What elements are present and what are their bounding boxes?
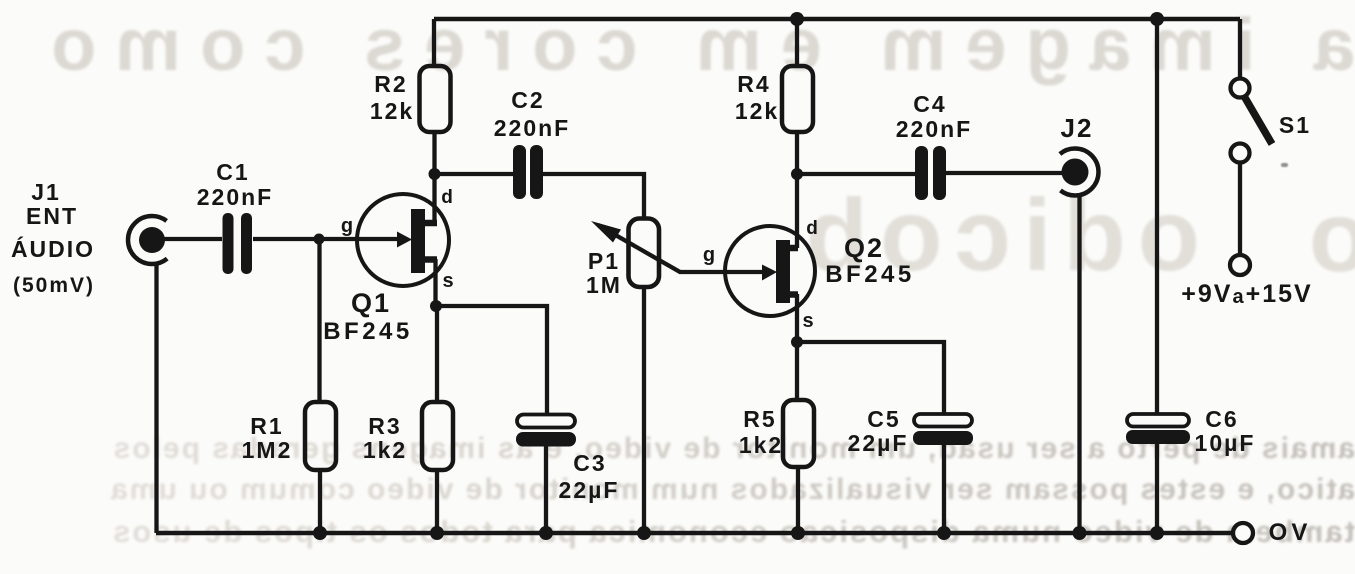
wire: C3 bottom lead bbox=[544, 446, 548, 533]
label R1 1M2 bbox=[242, 413, 293, 463]
wire: source junction to R3 bbox=[435, 306, 439, 402]
svg-text:1k2: 1k2 bbox=[363, 437, 407, 463]
node: Q2 drain / C4 junction bbox=[791, 168, 803, 180]
label J1 ENT AUDIO (50mV) bbox=[11, 179, 95, 297]
terminal 0V bbox=[1233, 523, 1253, 543]
svg-text:g: g bbox=[341, 215, 355, 237]
svg-text:BF245: BF245 bbox=[825, 261, 915, 288]
svg-text:ENT: ENT bbox=[26, 203, 78, 229]
wire: Q1 drain to C2 bbox=[435, 172, 514, 176]
svg-text:Q2: Q2 bbox=[844, 233, 884, 263]
transistor Q2 bbox=[725, 226, 815, 316]
svg-text:22µF: 22µF bbox=[559, 477, 620, 503]
label R2 12k bbox=[370, 71, 414, 124]
bleed-through headline line 1 (mirrored) bbox=[65, 2, 1355, 87]
label R4 12k bbox=[735, 71, 779, 124]
wire: C4 to J2 bbox=[946, 171, 1063, 175]
label P1 1M bbox=[586, 248, 622, 298]
wire: R3 bottom lead bbox=[435, 470, 439, 533]
node: rail junction R1 bbox=[313, 526, 327, 540]
svg-text:g: g bbox=[703, 244, 717, 266]
capacitor C6 (electrolytic) bbox=[1126, 414, 1190, 444]
bleed-through paragraph line 1 (mirrored) bbox=[70, 432, 1355, 466]
wire: J1 to C1 bbox=[163, 237, 222, 241]
svg-text:J2: J2 bbox=[1061, 113, 1094, 143]
resistor R1 bbox=[305, 402, 336, 470]
svg-text:22µF: 22µF bbox=[848, 430, 909, 456]
wire: Q2 source lead down bbox=[795, 294, 799, 342]
wire: R2 top lead bbox=[432, 19, 436, 66]
svg-text:C1: C1 bbox=[216, 159, 249, 185]
connector J2 bbox=[1052, 149, 1099, 196]
bleed-through paragraph line 3 (mirrored) bbox=[70, 514, 1355, 550]
scan speck bbox=[1281, 163, 1288, 167]
svg-text:d: d bbox=[441, 187, 455, 208]
svg-text:OV: OV bbox=[1269, 519, 1312, 546]
label C6 10uF bbox=[1195, 406, 1256, 456]
svg-text:C4: C4 bbox=[913, 91, 946, 117]
label Q2 BF245 bbox=[825, 233, 915, 288]
wire: C1 to Q1 gate bbox=[253, 237, 397, 241]
wire: C5 bottom lead bbox=[942, 445, 946, 533]
label R3 1k2 bbox=[363, 413, 407, 463]
capacitor C5 (electrolytic) bbox=[913, 414, 973, 445]
wire: top rail down to C6 bbox=[1155, 19, 1159, 414]
capacitor C4 bbox=[915, 146, 946, 200]
node: top rail junction above R4 bbox=[790, 12, 804, 26]
node: top rail junction above C6 bbox=[1150, 12, 1164, 26]
svg-text:220nF: 220nF bbox=[197, 184, 273, 210]
label C3 22uF bbox=[559, 450, 620, 503]
wire: J1 down lead bbox=[154, 264, 158, 533]
transistor Q1 bbox=[357, 194, 449, 286]
svg-text:R5: R5 bbox=[743, 406, 776, 432]
resistor R3 bbox=[422, 402, 453, 470]
node: rail junction C3 bbox=[539, 526, 553, 540]
label C1 220nF bbox=[197, 159, 273, 210]
wire: bottom ground rail bbox=[156, 531, 1233, 536]
bleed-through paragraph line 2 (mirrored) bbox=[70, 473, 1355, 507]
wire: Q2 drain to C4 bbox=[797, 172, 915, 176]
bleed-through headline line 2 (mirrored) bbox=[840, 177, 1200, 294]
node: rail junction C5 bbox=[937, 526, 951, 540]
node: rail junction P1 bbox=[637, 526, 651, 540]
svg-text:R3: R3 bbox=[368, 413, 401, 439]
wire: J2 down lead bbox=[1077, 193, 1081, 533]
svg-text:s: s bbox=[802, 310, 815, 332]
svg-text:ÁUDIO: ÁUDIO bbox=[11, 235, 95, 262]
svg-text:C2: C2 bbox=[511, 87, 544, 113]
wire: source junction to C5 bbox=[797, 342, 944, 413]
label R5 1k2 bbox=[739, 406, 783, 458]
resistor R5 bbox=[783, 400, 814, 467]
wire: R4 top lead bbox=[795, 19, 799, 66]
wire: top supply rail bbox=[434, 17, 1240, 22]
svg-text:1M: 1M bbox=[586, 272, 622, 298]
potentiometer P1 bbox=[591, 219, 680, 288]
label C4 220nF bbox=[896, 91, 972, 142]
node: gate/R1 junction bbox=[314, 234, 325, 245]
svg-text:12k: 12k bbox=[370, 98, 414, 124]
node: rail junction R5 bbox=[791, 526, 805, 540]
svg-text:10µF: 10µF bbox=[1195, 430, 1256, 456]
svg-text:C5: C5 bbox=[867, 406, 900, 432]
wire: C6 bottom lead bbox=[1155, 444, 1159, 533]
wire: R5 bottom lead bbox=[796, 467, 800, 533]
svg-text:BF245: BF245 bbox=[323, 318, 413, 345]
svg-text:J1: J1 bbox=[31, 179, 61, 205]
svg-text:C3: C3 bbox=[573, 450, 606, 476]
svg-text:220nF: 220nF bbox=[896, 116, 972, 142]
wire: junction down to R1 bbox=[317, 239, 321, 402]
node: rail junction R3 bbox=[430, 526, 444, 540]
svg-text:12k: 12k bbox=[735, 98, 779, 124]
bleed-through headline fragment right edge (mirrored) bbox=[1310, 180, 1355, 295]
svg-text:C6: C6 bbox=[1205, 406, 1238, 432]
svg-text:R4: R4 bbox=[737, 71, 770, 97]
node: rail junction C6 bbox=[1150, 526, 1164, 540]
node: rail junction J2 bbox=[1073, 526, 1087, 540]
wire: P1 wiper to Q2 gate bbox=[679, 270, 762, 274]
svg-text:R2: R2 bbox=[374, 71, 407, 97]
svg-text:(50mV): (50mV) bbox=[13, 274, 95, 297]
resistor R2 bbox=[420, 66, 451, 132]
resistor R4 bbox=[782, 66, 813, 132]
svg-text:1M2: 1M2 bbox=[242, 437, 293, 463]
label C2 220nF bbox=[494, 87, 570, 141]
capacitor C2 bbox=[513, 145, 543, 199]
capacitor C1 bbox=[223, 213, 253, 274]
label C5 22uF bbox=[848, 406, 909, 456]
svg-text:s: s bbox=[442, 270, 455, 292]
svg-text:220nF: 220nF bbox=[494, 115, 570, 141]
svg-text:S1: S1 bbox=[1279, 112, 1311, 138]
node: Q1 drain / C2 junction bbox=[429, 168, 441, 180]
svg-text:Q1: Q1 bbox=[351, 288, 391, 318]
wire: Q1 source lead down bbox=[433, 259, 437, 306]
wire: C2 to P1 bbox=[543, 174, 644, 218]
label Q1 BF245 bbox=[323, 288, 413, 345]
wire: source junction to R5 bbox=[795, 342, 799, 400]
node: Q1 source junction bbox=[430, 300, 442, 312]
svg-text:d: d bbox=[806, 218, 820, 239]
wire: source junction to C3 bbox=[436, 306, 547, 414]
wire: R2 bottom to Q1 drain bbox=[432, 132, 436, 223]
svg-text:P1: P1 bbox=[588, 248, 620, 274]
wire: R4 bottom to Q2 drain bbox=[795, 132, 799, 248]
connector J1 bbox=[128, 216, 176, 264]
node: Q2 source junction bbox=[791, 336, 803, 348]
switch S1 bbox=[1230, 19, 1272, 275]
wire: P1 bottom lead bbox=[642, 287, 646, 533]
svg-text:+9Va+15V: +9Va+15V bbox=[1181, 280, 1312, 308]
wire: R1 bottom lead bbox=[318, 470, 322, 533]
svg-text:1k2: 1k2 bbox=[739, 432, 783, 458]
capacitor C3 (electrolytic) bbox=[516, 415, 576, 447]
svg-text:R1: R1 bbox=[250, 413, 283, 439]
